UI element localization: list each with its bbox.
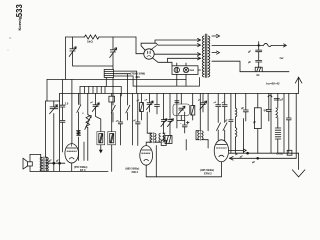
svg-text:Koenig: Koenig bbox=[17, 16, 22, 30]
svg-text:2.0: 2.0 bbox=[65, 103, 69, 106]
svg-text:±w: ±w bbox=[279, 56, 284, 60]
svg-text:h u=60÷42: h u=60÷42 bbox=[266, 81, 280, 85]
svg-text:μF: μF bbox=[239, 155, 243, 158]
svg-text:1Ω: 1Ω bbox=[256, 74, 259, 77]
svg-text:(μF: (μF bbox=[264, 109, 268, 112]
svg-text:max: max bbox=[189, 69, 194, 72]
svg-text:(965 50/Bx): (965 50/Bx) bbox=[126, 166, 140, 170]
svg-text:(Pt5 50/Bx): (Pt5 50/Bx) bbox=[74, 165, 88, 169]
svg-text:(50Ω): (50Ω) bbox=[277, 152, 283, 155]
svg-text:(965 59/Bx): (965 59/Bx) bbox=[200, 168, 214, 172]
svg-text:EFM 2: EFM 2 bbox=[204, 172, 212, 176]
svg-text:1kΩ: 1kΩ bbox=[87, 40, 93, 44]
svg-text:μF: μF bbox=[225, 119, 228, 122]
svg-text:209 3: 209 3 bbox=[132, 170, 139, 174]
svg-text:533: 533 bbox=[15, 4, 24, 18]
svg-text:μF: μF bbox=[251, 161, 255, 164]
svg-text:300: 300 bbox=[135, 75, 140, 79]
